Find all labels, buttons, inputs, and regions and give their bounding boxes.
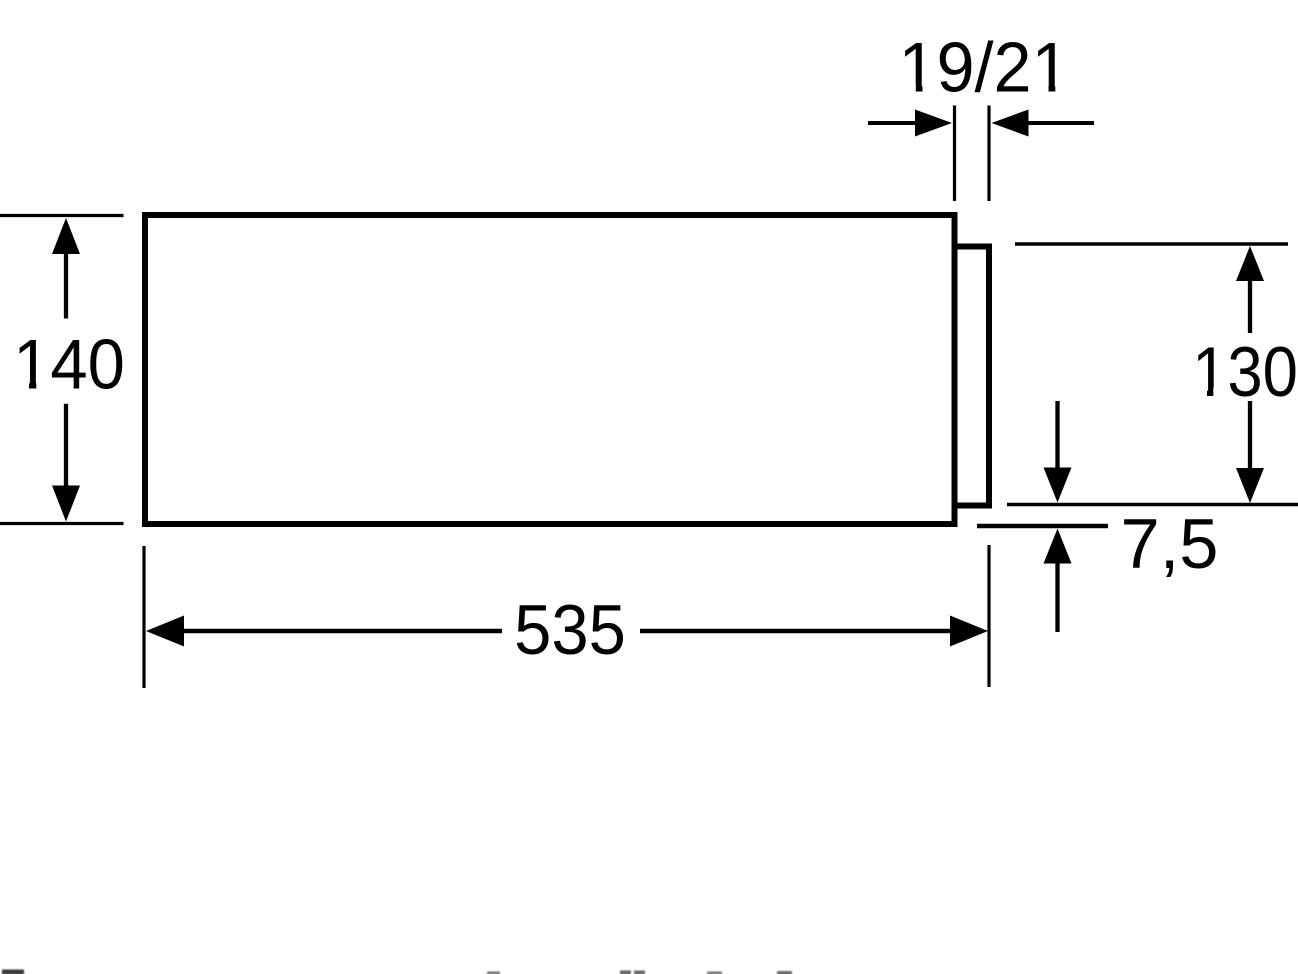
svg-text:19/21: 19/21: [898, 28, 1069, 107]
svg-text:130: 130: [1192, 333, 1298, 412]
svg-text:140: 140: [13, 325, 125, 404]
svg-text:535: 535: [514, 590, 626, 669]
svg-text:7,5: 7,5: [1120, 504, 1218, 583]
